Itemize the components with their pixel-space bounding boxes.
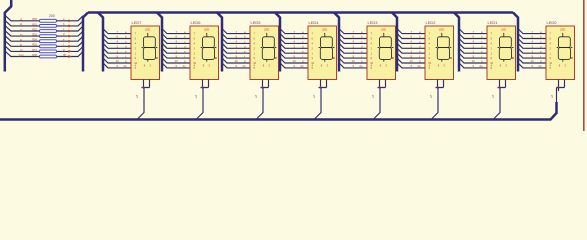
svg-text:R56: R56 bbox=[32, 18, 37, 21]
svg-text:R54: R54 bbox=[32, 39, 37, 42]
svg-text:LED0: LED0 bbox=[547, 20, 558, 25]
svg-text:LED1: LED1 bbox=[488, 20, 499, 25]
svg-text:LED3: LED3 bbox=[368, 20, 379, 25]
svg-text:R58: R58 bbox=[32, 54, 37, 57]
svg-text:LED7: LED7 bbox=[132, 20, 143, 25]
svg-text:LED5: LED5 bbox=[251, 20, 262, 25]
svg-text:C: C bbox=[20, 28, 23, 32]
svg-text:LED4: LED4 bbox=[309, 20, 320, 25]
svg-text:D: D bbox=[20, 33, 23, 37]
svg-text:LED6: LED6 bbox=[191, 20, 202, 25]
svg-text:DP: DP bbox=[19, 54, 25, 58]
svg-text:R53: R53 bbox=[32, 34, 37, 37]
svg-text:G: G bbox=[20, 49, 23, 53]
svg-text:R52: R52 bbox=[32, 28, 37, 31]
svg-text:R57: R57 bbox=[32, 49, 37, 52]
svg-text:LED2: LED2 bbox=[426, 20, 437, 25]
svg-text:200: 200 bbox=[49, 14, 55, 18]
svg-text:R55: R55 bbox=[32, 44, 37, 47]
svg-text:R51: R51 bbox=[32, 23, 37, 26]
